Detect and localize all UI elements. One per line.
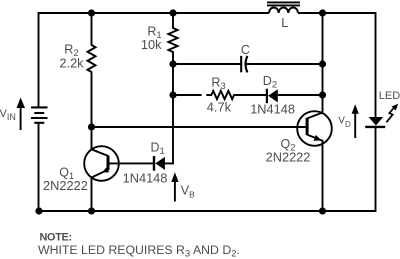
svg-text:1N4148: 1N4148 — [250, 101, 295, 116]
svg-text:VIN: VIN — [0, 108, 16, 122]
svg-text:LED: LED — [379, 90, 400, 102]
svg-text:D2: D2 — [263, 74, 277, 91]
svg-text:C: C — [241, 43, 250, 57]
svg-text:1N4148: 1N4148 — [123, 171, 168, 186]
svg-text:VB: VB — [181, 183, 196, 200]
svg-text:VD: VD — [338, 116, 351, 129]
svg-text:4.7k: 4.7k — [207, 100, 232, 115]
svg-text:D1: D1 — [151, 140, 165, 157]
svg-text:2.2k: 2.2k — [59, 55, 84, 70]
svg-text:2N2222: 2N2222 — [266, 149, 311, 164]
svg-text:NOTE:: NOTE: — [40, 231, 72, 243]
svg-text:2N2222: 2N2222 — [43, 178, 88, 193]
svg-text:L: L — [281, 16, 288, 30]
svg-text:WHITE LED REQUIRES R3 AND D2.: WHITE LED REQUIRES R3 AND D2. — [38, 243, 240, 259]
svg-text:10k: 10k — [141, 37, 162, 52]
